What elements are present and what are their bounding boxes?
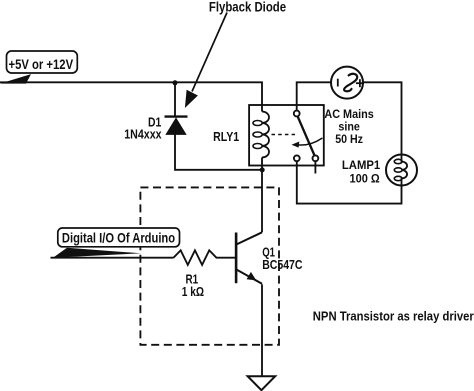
svg-text:Flyback Diode: Flyback Diode bbox=[209, 0, 286, 15]
svg-text:+5V or +12V: +5V or +12V bbox=[9, 57, 74, 72]
svg-text:1N4xxx: 1N4xxx bbox=[124, 127, 162, 142]
svg-text:100 Ω: 100 Ω bbox=[350, 171, 381, 185]
svg-text:sine: sine bbox=[338, 121, 360, 133]
svg-text:NPN Transistor as relay driver: NPN Transistor as relay driver bbox=[313, 309, 474, 324]
svg-text:AC Mains: AC Mains bbox=[324, 109, 373, 121]
svg-text:LAMP1: LAMP1 bbox=[342, 158, 381, 172]
svg-text:1 kΩ: 1 kΩ bbox=[182, 285, 204, 299]
svg-text:50 Hz: 50 Hz bbox=[335, 134, 363, 146]
svg-text:BC547C: BC547C bbox=[262, 258, 302, 272]
svg-text:RLY1: RLY1 bbox=[213, 129, 239, 144]
svg-text:Digital I/O Of Arduino: Digital I/O Of Arduino bbox=[62, 231, 175, 246]
